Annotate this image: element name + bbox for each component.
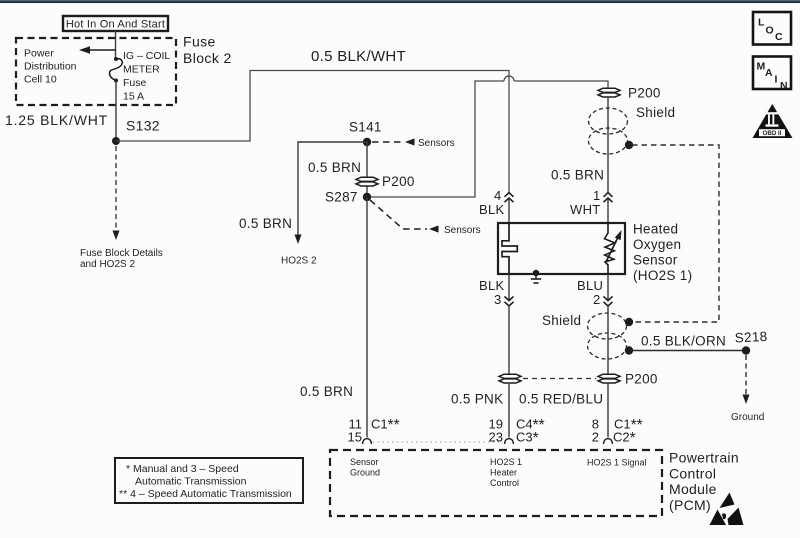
label Heated Oxygen Sensor (HO2S 1)	[633, 222, 692, 283]
dotted connector row line	[373, 441, 503, 443]
pin labels 8 C1** / 2 C2*	[592, 417, 643, 448]
svg-text:Cell 10: Cell 10	[24, 74, 57, 86]
svg-text:Sensors: Sensors	[444, 225, 481, 236]
wire S141 to S287	[366, 142, 368, 197]
svg-text:METER: METER	[123, 64, 160, 76]
svg-text:Powertrain: Powertrain	[669, 450, 739, 466]
svg-text:HO2S 1 Signal: HO2S 1 Signal	[587, 458, 647, 468]
wire chevron to HO2S box (pin 4)	[508, 198, 510, 223]
wire hot box to fuse	[115, 31, 117, 58]
svg-text:3: 3	[494, 292, 502, 307]
svg-text:Control: Control	[490, 478, 519, 488]
LOC locator box	[753, 12, 791, 45]
dashed arrow S141 to Sensors	[372, 138, 455, 149]
svg-text:Sensor: Sensor	[350, 457, 379, 467]
svg-text:0.5 PNK: 0.5 PNK	[451, 392, 503, 407]
svg-text:1.25 BLK/WHT: 1.25 BLK/WHT	[5, 112, 108, 128]
label box Hot In On And Start	[63, 16, 168, 31]
svg-text:P200: P200	[625, 372, 658, 387]
MAIN locator box	[753, 57, 791, 93]
svg-text:C3*: C3*	[516, 430, 539, 448]
wire hop over pin-4 wire	[504, 76, 514, 81]
svg-text:S287: S287	[325, 190, 358, 205]
svg-text:Automatic Transmission: Automatic Transmission	[135, 476, 247, 488]
pin 3 break chevrons	[505, 296, 514, 306]
arrow to HO2S 2	[295, 235, 302, 245]
fuse IG-COIL METER 15A	[110, 57, 123, 83]
svg-text:Control: Control	[669, 465, 716, 481]
svg-text:Module: Module	[669, 481, 717, 497]
svg-text:0.5 BLK/ORN: 0.5 BLK/ORN	[641, 334, 726, 349]
pin label 1 WHT	[570, 188, 601, 217]
svg-text:OBD II: OBD II	[763, 130, 782, 137]
svg-text:I: I	[775, 74, 778, 86]
node S132	[112, 137, 120, 145]
OBD II symbol	[753, 104, 793, 138]
ESD symbol	[710, 493, 744, 526]
pin 2 entry	[604, 439, 613, 444]
node shield drain out (bottom)	[625, 346, 633, 354]
svg-text:0.5 BRN: 0.5 BRN	[308, 160, 361, 175]
wire pin 2 down through shield to P200	[607, 306, 609, 374]
svg-text:23: 23	[489, 430, 503, 445]
wire S287 down to PCM pin 15	[366, 197, 368, 438]
dashed arrow S287 to Sensors	[370, 200, 481, 236]
svg-text:Hot In On And Start: Hot In On And Start	[66, 18, 165, 30]
pin labels 19 C4** / 23 C3*	[489, 417, 545, 448]
svg-text:O: O	[766, 25, 774, 37]
svg-text:IG – COIL: IG – COIL	[123, 50, 170, 62]
connector P200 (top shield)	[598, 88, 620, 97]
svg-text:HO2S 1: HO2S 1	[490, 457, 522, 467]
svg-text:HO2S 2: HO2S 2	[281, 256, 317, 267]
svg-text:Ground: Ground	[350, 468, 380, 478]
svg-text:1: 1	[593, 188, 601, 203]
wire S287 right riser to second run	[367, 81, 504, 197]
label Powertrain Control Module (PCM)	[669, 450, 739, 513]
wire HO2S box to pin 2 chevrons	[607, 274, 609, 301]
svg-text:BLK: BLK	[479, 202, 505, 217]
svg-text:S132: S132	[126, 118, 160, 134]
wire P200 down through shield to pin 1	[607, 97, 609, 193]
svg-text:15: 15	[348, 430, 362, 445]
svg-text:Distribution: Distribution	[24, 61, 77, 73]
dashed arrow S218 to Ground	[731, 355, 764, 423]
svg-text:S218: S218	[734, 329, 767, 346]
wire P200 to pin 2	[607, 383, 609, 438]
svg-text:Oxygen: Oxygen	[633, 237, 681, 252]
footnote text	[119, 463, 292, 500]
pin 2 break chevrons	[604, 296, 613, 306]
wire pin 3 down to P200	[508, 306, 510, 374]
arrow to Power Distribution	[79, 46, 116, 53]
svg-text:WHT: WHT	[570, 202, 601, 217]
wire fuse to S132	[115, 81, 117, 142]
svg-text:2: 2	[592, 430, 599, 445]
wire 0.5 BLK/ORN to S218	[631, 350, 746, 352]
pin 1 break chevrons	[604, 193, 613, 203]
label Fuse Block 2	[183, 34, 232, 67]
svg-text:Shield: Shield	[542, 313, 581, 328]
svg-text:BLK: BLK	[479, 278, 505, 293]
connector P200 (bottom right)	[598, 374, 620, 383]
wire S141 left branch	[298, 142, 367, 235]
HO2S 1 sensor box	[498, 223, 625, 274]
svg-text:P200: P200	[628, 86, 661, 101]
svg-text:0.5 BRN: 0.5 BRN	[239, 216, 292, 231]
dashed link between P200 halves	[523, 378, 596, 380]
svg-text:Fuse: Fuse	[123, 77, 147, 89]
pin labels 11 C1** / 15	[348, 417, 400, 445]
svg-text:15 A: 15 A	[123, 91, 144, 103]
svg-text:C2*: C2*	[613, 430, 636, 448]
svg-text:Sensors: Sensors	[418, 138, 455, 149]
svg-text:and HO2S 2: and HO2S 2	[80, 259, 135, 270]
fuse block 2 dashed box	[16, 38, 176, 105]
footnote box	[115, 458, 303, 503]
shield (bottom) dashed coil	[588, 313, 627, 359]
connector P200 (bottom left)	[499, 374, 521, 383]
label IG-COIL METER Fuse 15 A	[123, 50, 170, 103]
pin label BLK 3	[479, 278, 505, 307]
svg-text:0.5 RED/BLU: 0.5 RED/BLU	[519, 392, 603, 407]
wire second run to P200	[514, 81, 608, 89]
svg-text:0.5 BRN: 0.5 BRN	[551, 168, 604, 183]
svg-text:2: 2	[593, 292, 601, 307]
label Power Distribution Cell 10	[24, 48, 77, 86]
dashed drain wire to second shield	[632, 145, 719, 322]
svg-text:N: N	[780, 80, 788, 92]
pin 4 break chevrons	[505, 193, 514, 203]
svg-text:Shield: Shield	[636, 105, 675, 120]
wire chevron to HO2S box (pin 1)	[607, 198, 609, 223]
svg-text:C: C	[775, 31, 783, 43]
pin label BLU 2	[577, 278, 603, 307]
node shield drain (top)	[625, 141, 633, 149]
svg-text:4: 4	[494, 188, 502, 203]
svg-text:(HO2S 1): (HO2S 1)	[633, 268, 692, 283]
dashed arrow to Fuse Block Details	[113, 146, 120, 240]
wire S132 to top run 0.5 BLK/WHT down to pin 4	[116, 71, 509, 193]
svg-text:* Manual and 3 – Speed: * Manual and 3 – Speed	[126, 463, 239, 475]
svg-text:S141: S141	[349, 120, 382, 135]
wire P200 to pin 23	[508, 383, 510, 438]
svg-text:A: A	[765, 67, 773, 79]
connector P200 (at S287)	[356, 177, 378, 186]
pin label 4 BLK	[479, 188, 505, 217]
svg-text:BLU: BLU	[577, 278, 603, 293]
sensing element (variable resistor)	[605, 223, 622, 274]
svg-text:P200: P200	[382, 174, 415, 189]
svg-text:Power: Power	[24, 48, 54, 60]
heater element	[502, 223, 517, 274]
label Sensor Ground	[350, 457, 380, 478]
node S141	[349, 120, 382, 147]
label HO2S 1 Heater Control	[490, 457, 522, 488]
node S287	[325, 190, 371, 205]
svg-text:L: L	[758, 17, 765, 29]
node S218	[734, 329, 767, 355]
svg-text:Heater: Heater	[490, 468, 517, 478]
svg-text:0.5 BLK/WHT: 0.5 BLK/WHT	[311, 48, 406, 65]
svg-text:Ground: Ground	[731, 412, 764, 423]
svg-text:0.5 BRN: 0.5 BRN	[300, 384, 353, 399]
svg-text:(PCM): (PCM)	[669, 497, 711, 513]
pin 23 entry	[505, 439, 514, 444]
PCM dashed box	[330, 450, 662, 516]
wire HO2S box to pin 3 chevrons	[508, 274, 510, 301]
svg-text:Sensor: Sensor	[633, 252, 678, 267]
svg-text:Fuse Block Details: Fuse Block Details	[80, 248, 163, 259]
shield (top) dashed coil	[589, 108, 628, 154]
svg-text:C1**: C1**	[371, 417, 400, 435]
svg-text:Fuse: Fuse	[183, 34, 216, 50]
svg-text:** 4 – Speed Automatic Transmi: ** 4 – Speed Automatic Transmission	[119, 488, 292, 500]
ground (inside sensor)	[531, 270, 541, 283]
node shield drain in (bottom)	[625, 318, 633, 326]
svg-text:Heated: Heated	[633, 222, 678, 237]
pin 15 entry	[363, 439, 372, 444]
label Fuse Block Details and HO2S 2	[80, 248, 163, 270]
svg-text:Block 2: Block 2	[183, 50, 232, 66]
